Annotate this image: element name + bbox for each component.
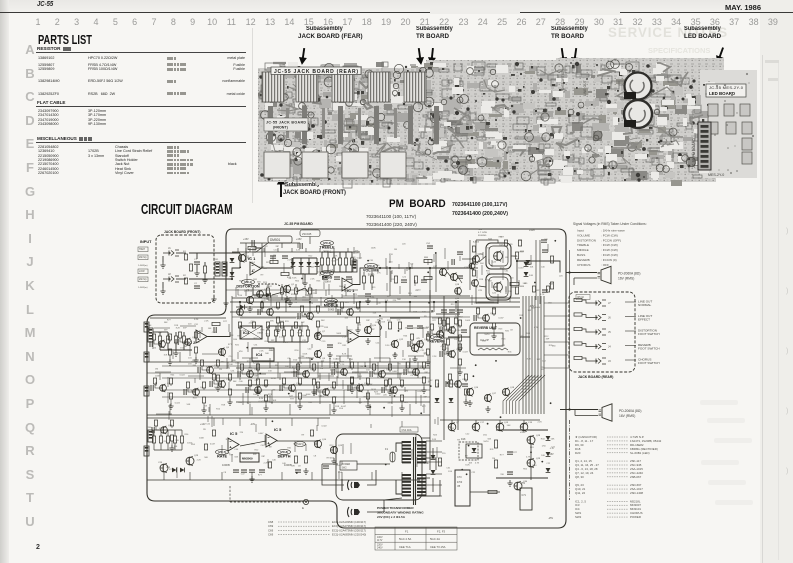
wire fill (518, 280, 520, 287)
svg-text:15K: 15K (346, 341, 350, 343)
wire stage (386, 374, 402, 405)
ground (255, 389, 260, 395)
wire input high (189, 252, 214, 254)
svg-text:1M: 1M (405, 327, 408, 329)
wire (421, 458, 436, 470)
svg-text:J3: J3 (608, 359, 611, 363)
wire lfo tap (239, 418, 241, 426)
svg-text:10K: 10K (229, 364, 233, 366)
wire fill (342, 380, 344, 389)
node (516, 260, 518, 262)
svg-text:JACK BOARD (FRONT): JACK BOARD (FRONT) (164, 230, 200, 234)
svg-text:C40: C40 (307, 349, 312, 351)
ground (412, 356, 417, 362)
transistor (520, 422, 528, 431)
svg-text:C22: C22 (465, 433, 470, 435)
resistor (310, 430, 313, 436)
junction (435, 252, 437, 254)
resistor (228, 389, 231, 395)
svg-text:F1: F1 (385, 447, 389, 451)
capacitor (382, 387, 384, 393)
svg-text:0.047: 0.047 (364, 401, 370, 403)
wire pa input vert (469, 240, 471, 290)
svg-text:33P: 33P (423, 396, 427, 398)
connector (144, 386, 149, 396)
svg-text:R44: R44 (171, 374, 176, 376)
wire (307, 326, 309, 330)
resistor (316, 382, 319, 388)
svg-text:1/50: 1/50 (238, 351, 243, 353)
wire fill (353, 293, 355, 304)
wire fill (420, 395, 422, 406)
node (379, 267, 381, 269)
wire fill (408, 262, 410, 270)
wire stage (374, 358, 390, 389)
svg-text:0.022: 0.022 (357, 257, 363, 259)
wire (167, 430, 169, 436)
wire midtap (297, 362, 299, 378)
svg-text:56K: 56K (487, 438, 491, 440)
junction (530, 451, 532, 453)
resistor (312, 379, 315, 385)
wire (462, 258, 472, 260)
wire diagonal bundle (516, 375, 542, 414)
wire tap down (199, 373, 201, 380)
junction (398, 330, 400, 332)
wire plug2 (367, 498, 402, 512)
resistor (264, 395, 267, 401)
junction (427, 271, 429, 273)
resistor (170, 420, 173, 426)
AC plug 1 (347, 480, 367, 490)
op-amp (342, 278, 353, 291)
svg-text:1M: 1M (288, 278, 291, 280)
big capacitor rings (625, 73, 652, 100)
jack J1 (163, 250, 179, 256)
resistor (186, 382, 189, 388)
svg-text:Q29: Q29 (194, 455, 199, 457)
svg-text:2.2K: 2.2K (197, 460, 202, 462)
ground (303, 468, 308, 474)
output transistor Q21 boxed (486, 274, 511, 300)
svg-text:24V (DC) x 2 Φ1.5A: 24V (DC) x 2 Φ1.5A (377, 515, 406, 519)
wire tone top rail (322, 251, 352, 253)
wire (530, 467, 532, 480)
wire lfo rail418 (200, 417, 330, 419)
capacitor (194, 262, 200, 264)
svg-text:1M: 1M (336, 259, 339, 261)
wire (281, 294, 283, 300)
wire drop (409, 268, 411, 296)
resistor (356, 317, 359, 323)
svg-text:HIGH: HIGH (139, 248, 145, 251)
capacitor (151, 385, 153, 391)
resistor (366, 378, 369, 384)
svg-text:100K: 100K (306, 394, 311, 396)
svg-text:33P: 33P (271, 340, 275, 342)
wire (275, 326, 277, 330)
junction (466, 473, 468, 475)
resistor (189, 264, 192, 271)
svg-text:R31: R31 (238, 402, 243, 404)
resistor (266, 330, 269, 336)
wire (582, 329, 590, 332)
resistor (184, 278, 187, 284)
output transistor Q22 boxed (486, 243, 511, 269)
wire stage (202, 354, 218, 385)
resistor (422, 377, 425, 383)
svg-text:R31: R31 (372, 287, 377, 289)
svg-text:C14: C14 (313, 293, 318, 295)
svg-text:C70: C70 (457, 476, 462, 479)
wire (309, 284, 311, 288)
wire vert 300 (299, 342, 301, 362)
resistor (510, 282, 519, 285)
capacitor (194, 286, 200, 288)
resistor (158, 336, 161, 343)
transistor (160, 463, 168, 473)
wire fill (323, 283, 325, 289)
capacitor (323, 466, 329, 468)
capacitor (461, 330, 467, 332)
svg-text:(SW1): (SW1) (296, 442, 303, 446)
node (389, 267, 391, 269)
svg-text:220: 220 (336, 358, 340, 360)
svg-text:0.047: 0.047 (518, 268, 524, 270)
svg-text:LOW: LOW (139, 270, 145, 273)
input level tag (138, 277, 148, 282)
svg-text:R23: R23 (260, 329, 265, 331)
svg-text:10K: 10K (285, 366, 289, 368)
resistor (194, 332, 197, 338)
wire (214, 252, 240, 254)
wire bottom tap (371, 472, 373, 480)
resistor (388, 379, 391, 385)
resistor (204, 444, 207, 450)
resistor (546, 286, 549, 292)
wire fill (255, 424, 257, 432)
wire fill (481, 265, 483, 275)
wire lfo rail2 (154, 429, 182, 431)
input level tag (138, 255, 148, 260)
wire -40 to Q21 (476, 300, 498, 303)
wire band302ext (470, 301, 520, 303)
PCB board PM BOARD layout image (256, 56, 758, 192)
wire (479, 286, 486, 287)
resistor (426, 349, 429, 355)
wire primary top (396, 443, 402, 452)
node (568, 271, 570, 273)
transformer tap wire (426, 473, 442, 475)
wire fill (302, 273, 304, 284)
svg-text:0.047: 0.047 (498, 317, 504, 319)
wire (176, 252, 186, 254)
svg-text:15K: 15K (402, 359, 406, 361)
svg-text:10K: 10K (273, 400, 277, 402)
wire bus horizontal to jacks (544, 315, 569, 317)
svg-text:SW2: SW2 (342, 467, 348, 469)
svg-text:C8: C8 (298, 465, 302, 467)
svg-text:56K: 56K (344, 317, 348, 319)
wire (299, 326, 301, 330)
junction (495, 360, 497, 362)
wire (245, 248, 247, 262)
wire fill (226, 358, 228, 369)
junction (304, 313, 306, 315)
capacitor (338, 309, 340, 315)
svg-text:2.2K: 2.2K (342, 337, 347, 339)
diode (524, 262, 529, 266)
svg-text:33P: 33P (528, 310, 532, 312)
resistor (492, 308, 495, 314)
wire mains entry (322, 464, 344, 485)
resistor (574, 298, 582, 301)
wire (162, 282, 164, 288)
jack J3 (590, 358, 606, 364)
capacitor (295, 470, 301, 472)
resistor (240, 364, 243, 370)
wire (371, 272, 373, 276)
svg-text:4.7K: 4.7K (534, 327, 539, 329)
svg-text:R12: R12 (216, 408, 221, 410)
ground (425, 359, 430, 365)
wire row gnd (268, 299, 310, 301)
svg-text:15K: 15K (196, 342, 200, 344)
svg-text:15K: 15K (164, 354, 168, 356)
svg-text:R23: R23 (498, 328, 503, 330)
resistor (332, 382, 335, 388)
capacitor (462, 384, 468, 386)
svg-text:10/16: 10/16 (535, 307, 541, 309)
chassis ground E (303, 499, 308, 504)
diode (291, 262, 296, 266)
op-amp (250, 262, 261, 275)
svg-text:C31: C31 (446, 468, 451, 470)
wire bottom tap (221, 472, 223, 480)
junction (246, 347, 248, 349)
svg-text:+15V: +15V (520, 431, 526, 434)
ground (194, 270, 199, 276)
resistor (202, 382, 205, 388)
wire drop (389, 268, 391, 296)
wire (309, 237, 311, 245)
svg-text:240V: 240V (377, 547, 383, 550)
svg-text:R61: R61 (398, 364, 403, 366)
wire (204, 273, 206, 277)
wire fill (482, 252, 484, 258)
wire bus tap (433, 302, 435, 312)
svg-text:+15V: +15V (296, 238, 302, 241)
svg-text:C22: C22 (501, 345, 506, 347)
wire (245, 243, 247, 248)
resistor (290, 330, 293, 336)
svg-text:10/16: 10/16 (483, 441, 489, 443)
wire rail 536 (535, 240, 537, 300)
svg-text:2.2K: 2.2K (287, 259, 292, 261)
svg-text:10K: 10K (204, 406, 208, 408)
svg-text:Q11, 22: Q11, 22 (575, 491, 585, 495)
wire fill (433, 254, 435, 262)
svg-text:: FCCW (OFF): : FCCW (OFF) (601, 238, 621, 242)
svg-text:220: 220 (402, 243, 406, 245)
capacitor (457, 276, 463, 278)
svg-text:2.2K: 2.2K (537, 421, 542, 423)
resistor (362, 276, 365, 283)
svg-text:C22: C22 (492, 262, 497, 264)
svg-text:R77: R77 (513, 452, 518, 454)
svg-text:Q2: Q2 (291, 284, 295, 286)
resistor (180, 436, 183, 443)
wire (351, 265, 353, 272)
capacitor (370, 371, 372, 377)
ground (202, 277, 207, 283)
wire midband (162, 365, 430, 367)
wire to power amp (380, 267, 470, 269)
svg-text:Q7: Q7 (322, 331, 326, 333)
svg-text:EFFECT: EFFECT (638, 318, 650, 322)
svg-text:33P: 33P (301, 322, 305, 324)
svg-text:33P: 33P (254, 376, 258, 378)
svg-text:4.7K: 4.7K (526, 456, 531, 458)
wire diagonal bundle (509, 375, 535, 414)
capacitor (259, 470, 265, 472)
capacitor (440, 327, 442, 333)
wire mid tap (249, 358, 251, 368)
fuse F1 (390, 452, 395, 462)
svg-text:220: 220 (349, 329, 353, 331)
wire fill (207, 416, 209, 422)
connector (148, 328, 153, 342)
wire fill (386, 283, 388, 291)
svg-text:15K: 15K (377, 302, 381, 304)
potentiometer (VR-1) DISTORTION (242, 279, 255, 284)
wire bus vertical (537, 296, 539, 414)
wire (333, 265, 335, 272)
resistor (238, 322, 241, 328)
power switch SW2 (340, 461, 357, 470)
AC plug 2 (347, 507, 367, 517)
svg-text:5GC 2.5A: 5GC 2.5A (399, 537, 411, 541)
wire fill (228, 324, 230, 332)
transistor (483, 314, 490, 322)
wire stage (352, 372, 368, 403)
svg-text:47K: 47K (355, 250, 359, 252)
wire bottom tap (189, 472, 191, 480)
svg-text:C25: C25 (478, 290, 483, 292)
svg-text:220: 220 (188, 324, 192, 326)
wire output to speaker (517, 261, 560, 273)
transistor (364, 326, 371, 335)
svg-text:250KA: 250KA (323, 279, 331, 283)
filter capacitor C71 (520, 488, 532, 510)
svg-text:R12: R12 (459, 316, 464, 318)
transistor (455, 287, 462, 295)
dashed control wire (258, 284, 283, 287)
wire stage (450, 368, 466, 399)
wire midtap2 (271, 390, 273, 404)
transistor (207, 366, 214, 374)
resistor (280, 322, 283, 328)
wire fill (404, 387, 406, 392)
wire (316, 267, 318, 274)
svg-text:100K: 100K (371, 247, 376, 249)
svg-text:33P: 33P (253, 454, 257, 456)
wire (167, 443, 169, 450)
wire center vertical rail (429, 290, 431, 470)
ground (365, 338, 370, 344)
wire reverb out (520, 336, 530, 338)
svg-text:REVERB: REVERB (577, 258, 590, 262)
junction (359, 301, 361, 303)
wire fill (201, 327, 203, 332)
wire to speaker1 hot (566, 272, 597, 274)
ground (387, 389, 392, 395)
svg-text:0.022: 0.022 (175, 403, 181, 405)
op-amp (348, 330, 359, 343)
svg-text:R12: R12 (545, 336, 550, 338)
wire (339, 252, 341, 258)
wire fill (346, 326, 348, 335)
svg-text:R9: R9 (261, 275, 265, 277)
transistor (417, 340, 424, 348)
svg-text:JACK BOARD (REAR): JACK BOARD (REAR) (578, 375, 613, 379)
wire vert 380 (379, 337, 381, 362)
wire diagonal bundle (506, 375, 532, 414)
wire rail 540 (539, 240, 541, 304)
svg-text:16V (RMS): 16V (RMS) (619, 414, 635, 418)
resistor (312, 364, 315, 370)
svg-text:JC-55 PM BOARD: JC-55 PM BOARD (692, 138, 696, 168)
svg-text:56K: 56K (257, 281, 261, 283)
wire fill (359, 253, 361, 259)
wire (392, 452, 394, 462)
svg-text:0.022: 0.022 (337, 465, 343, 467)
svg-text:Input: Input (577, 229, 584, 233)
svg-text:0.047: 0.047 (258, 433, 264, 435)
svg-text:10K: 10K (208, 328, 212, 330)
svg-text:1M: 1M (252, 269, 255, 271)
resistor (216, 360, 219, 366)
wire to reverb (448, 336, 470, 338)
junction (550, 402, 552, 404)
svg-text:50KB: 50KB (328, 307, 335, 311)
capacitor (241, 470, 247, 472)
BBD clock MN3009 box (240, 453, 259, 462)
wire fill (491, 282, 493, 288)
svg-text:2.2K: 2.2K (340, 364, 345, 366)
connector (352, 260, 357, 272)
ground (302, 280, 307, 286)
wire rail tap (249, 248, 251, 252)
svg-text:47K: 47K (416, 338, 420, 340)
wire fill (530, 255, 532, 265)
wire bottom tap (163, 472, 165, 480)
ground (421, 387, 426, 393)
wire mid horizontal (236, 401, 430, 403)
svg-text:JC-55 PM BOARD: JC-55 PM BOARD (284, 222, 313, 226)
REVERB UNIT enclosure (470, 323, 520, 355)
junction (259, 373, 261, 375)
svg-text:R77: R77 (500, 455, 505, 457)
svg-text:4.7K: 4.7K (540, 294, 545, 296)
dashed ground wire (230, 501, 303, 503)
svg-text:C22: C22 (542, 360, 547, 362)
transistor (307, 312, 314, 320)
svg-text:PD-2060A (8Ω): PD-2060A (8Ω) (618, 272, 640, 276)
connector (144, 322, 149, 332)
svg-text:(FRONT): (FRONT) (273, 126, 289, 130)
svg-text:J1: J1 (168, 246, 171, 250)
